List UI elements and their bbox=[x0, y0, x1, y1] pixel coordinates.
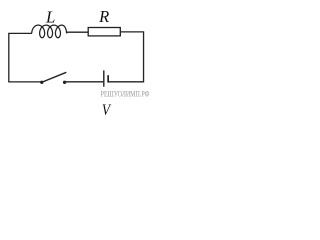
svg-text:L: L bbox=[45, 8, 55, 27]
resistor R bbox=[88, 28, 120, 36]
wire bbox=[65, 81, 103, 83]
inductor L1 coil bbox=[32, 25, 67, 38]
wire bbox=[109, 32, 144, 82]
svg-text:R: R bbox=[98, 7, 109, 26]
battery V short plate bbox=[107, 75, 109, 82]
switch contact dot left bbox=[40, 81, 43, 84]
wire bbox=[9, 33, 41, 82]
battery V long plate bbox=[103, 70, 105, 86]
svg-text:РЕШУОЛИМП.РФ: РЕШУОЛИМП.РФ bbox=[101, 89, 150, 99]
svg-text:V: V bbox=[102, 102, 112, 119]
switch lever bbox=[42, 72, 66, 82]
wire bbox=[66, 31, 88, 34]
switch contact dot right bbox=[63, 81, 66, 84]
